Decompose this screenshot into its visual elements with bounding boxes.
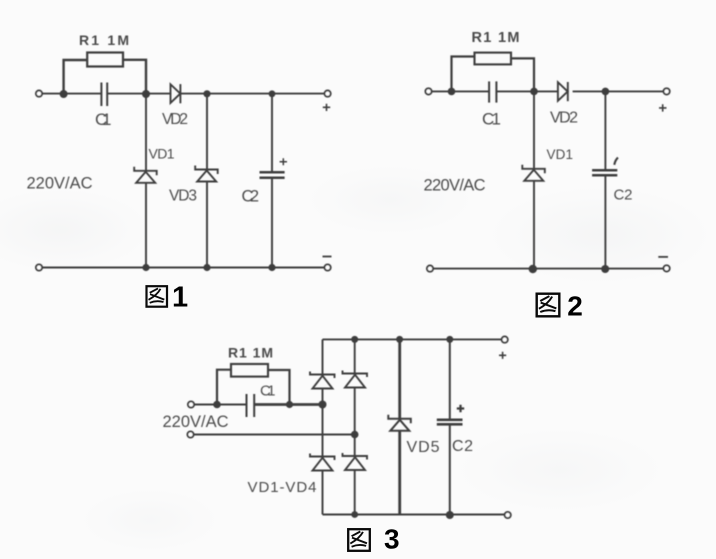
svg-text:R1 1M: R1 1M	[79, 32, 129, 48]
svg-text:VD2: VD2	[162, 111, 188, 128]
svg-text:C2: C2	[614, 187, 633, 204]
svg-text:C1: C1	[482, 110, 501, 129]
svg-text:2: 2	[567, 291, 583, 322]
svg-text:VD1: VD1	[149, 146, 175, 162]
svg-text:VD1: VD1	[547, 147, 574, 162]
svg-text:220V/AC: 220V/AC	[163, 413, 229, 431]
svg-text:C2: C2	[452, 438, 473, 455]
svg-text:C2: C2	[242, 188, 260, 206]
svg-text:C1: C1	[260, 383, 276, 400]
svg-text:3: 3	[384, 524, 400, 555]
svg-text:R1 1M: R1 1M	[472, 30, 520, 46]
svg-text:R1 1M: R1 1M	[228, 345, 273, 361]
svg-text:VD3: VD3	[169, 188, 197, 205]
svg-text:C1: C1	[95, 110, 112, 129]
svg-text:VD2: VD2	[550, 110, 578, 127]
svg-text:220V/AC: 220V/AC	[424, 177, 486, 195]
svg-text:220V/AC: 220V/AC	[27, 175, 93, 193]
svg-text:VD1-VD4: VD1-VD4	[248, 479, 317, 496]
svg-text:VD5: VD5	[407, 439, 440, 456]
svg-text:1: 1	[172, 282, 188, 314]
